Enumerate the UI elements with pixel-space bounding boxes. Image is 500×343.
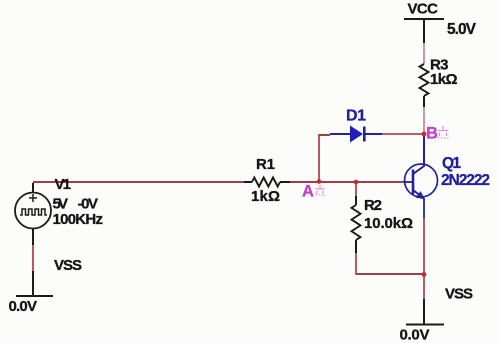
svg-text:R1: R1 [256,156,275,173]
svg-text:100KHz: 100KHz [53,211,104,228]
svg-text:Q1: Q1 [442,155,461,172]
svg-text:1kΩ: 1kΩ [430,71,458,88]
svg-text:B: B [426,125,438,143]
svg-text:VSS: VSS [54,257,82,274]
svg-text:R2: R2 [364,197,382,214]
svg-text:5V: 5V [53,196,69,213]
svg-text:10.0kΩ: 10.0kΩ [364,215,413,232]
svg-text:0.0V: 0.0V [9,298,38,315]
svg-text:VSS: VSS [445,286,473,303]
svg-text:V1: V1 [55,176,72,193]
svg-text:A: A [302,183,314,201]
svg-text:D1: D1 [346,108,366,125]
svg-text:5.0V: 5.0V [447,21,477,38]
svg-text:0.0V: 0.0V [400,327,430,343]
svg-text:1kΩ: 1kΩ [251,188,280,205]
svg-text:-0V: -0V [78,196,99,213]
svg-text:VCC: VCC [408,1,439,18]
svg-text:2N2222: 2N2222 [441,172,490,189]
